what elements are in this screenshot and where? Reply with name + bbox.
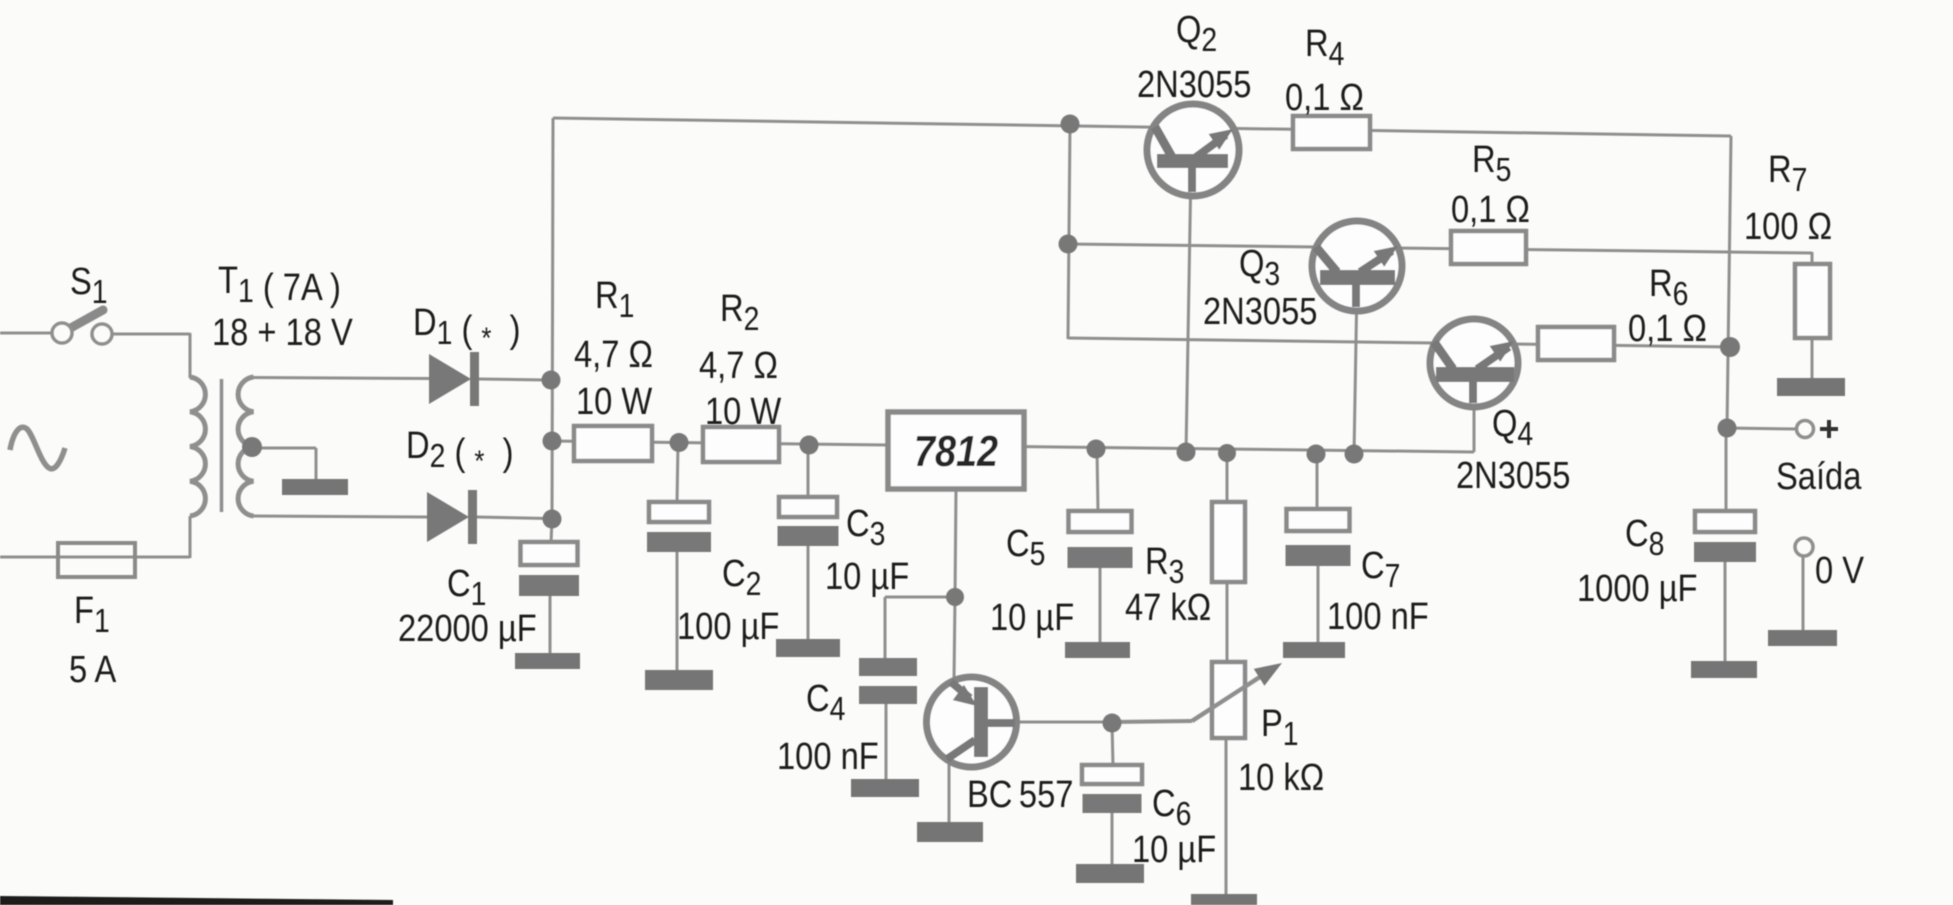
- svg-text:0,1 Ω: 0,1 Ω: [1451, 188, 1530, 231]
- svg-text:5 A: 5 A: [69, 648, 117, 691]
- svg-text:10 µF: 10 µF: [1132, 828, 1216, 871]
- svg-text:0,1 Ω: 0,1 Ω: [1285, 76, 1364, 119]
- svg-text:10 W: 10 W: [705, 390, 782, 433]
- svg-text:18 + 18 V: 18 + 18 V: [212, 311, 353, 354]
- svg-text:10 µF: 10 µF: [990, 596, 1074, 639]
- svg-text:10 kΩ: 10 kΩ: [1238, 756, 1324, 799]
- svg-text:2N3055: 2N3055: [1137, 63, 1251, 106]
- svg-text:22000 µF: 22000 µF: [398, 607, 537, 650]
- svg-text:100 Ω: 100 Ω: [1744, 205, 1832, 248]
- svg-text:Saída: Saída: [1776, 455, 1862, 498]
- svg-text:10 W: 10 W: [576, 380, 653, 423]
- svg-text:4,7 Ω: 4,7 Ω: [699, 344, 778, 387]
- svg-text:0,1 Ω: 0,1 Ω: [1628, 307, 1707, 350]
- svg-text:2N3055: 2N3055: [1456, 454, 1570, 497]
- svg-text:2N3055: 2N3055: [1203, 290, 1317, 333]
- svg-text:4,7 Ω: 4,7 Ω: [574, 333, 653, 376]
- svg-text:BC 557: BC 557: [967, 773, 1073, 816]
- svg-text:0 V: 0 V: [1815, 549, 1864, 592]
- svg-text:10 µF: 10 µF: [825, 555, 909, 598]
- svg-text:47 kΩ: 47 kΩ: [1125, 586, 1211, 629]
- svg-text:100 nF: 100 nF: [777, 735, 879, 778]
- svg-text:7812: 7812: [914, 426, 998, 475]
- svg-text:100 µF: 100 µF: [677, 605, 779, 648]
- svg-text:100 nF: 100 nF: [1327, 595, 1429, 638]
- svg-text:1000 µF: 1000 µF: [1577, 567, 1698, 610]
